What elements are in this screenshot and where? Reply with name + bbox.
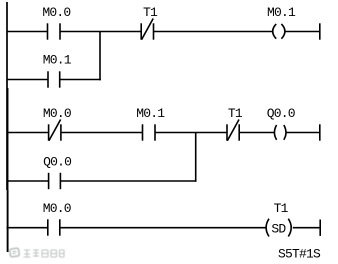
- wire rung1: left rail to contact M0.0: [7, 31, 48, 33]
- wire branch M0.1: left rail to contact: [7, 79, 49, 81]
- right rail stub network 1: [319, 23, 321, 39]
- wire rung3: coil to right rail: [293, 227, 320, 229]
- wire branch Q0.0: left rail to contact: [7, 180, 49, 182]
- contact M0.1 (NO) parallel branch network 1: [48, 71, 60, 87]
- svg-text:M0.1: M0.1: [267, 5, 296, 20]
- wire rung1: contact M0.0 to contact T1: [60, 31, 141, 33]
- junction vertical connector network 1: [99, 32, 101, 81]
- wire rung2: coil Q0.0 to right rail: [286, 132, 320, 134]
- wire rung1: contact T1 to coil M0.1: [154, 31, 273, 33]
- timer coil T1 (SD) network 3: [266, 219, 291, 237]
- right rail stub network 2: [319, 124, 321, 140]
- svg-text:M0.1: M0.1: [43, 53, 72, 68]
- svg-text:T1: T1: [228, 106, 243, 121]
- wire rung2: left rail to contact M0.0: [7, 132, 49, 134]
- wire rung3: left rail to contact M0.0: [7, 227, 49, 229]
- wire rung1: coil M0.1 to right rail: [285, 31, 320, 33]
- svg-text:SD: SD: [271, 221, 286, 236]
- wire branch M0.1: contact to junction: [60, 79, 101, 81]
- contact T1 (NC) network 1: [141, 19, 153, 40]
- left power rail: [6, 2, 9, 252]
- wire branch Q0.0: contact to junction: [60, 180, 196, 182]
- svg-text:Q0.0: Q0.0: [267, 106, 295, 121]
- svg-text:M0.0: M0.0: [43, 106, 71, 121]
- contact M0.0 (NO) network 1: [48, 23, 61, 39]
- svg-text:T1: T1: [274, 201, 289, 216]
- svg-text:M0.1: M0.1: [136, 106, 165, 121]
- wire rung3: contact M0.0 to timer coil T1: [60, 227, 267, 229]
- contact T1 (NC) network 2: [227, 120, 239, 141]
- svg-text:S5T#1S: S5T#1S: [278, 247, 321, 262]
- contact M0.0 (NC) network 2: [49, 120, 61, 141]
- wire rung2: contact M0.0 to contact M0.1: [61, 132, 143, 134]
- contact M0.1 (NO) network 2: [143, 124, 156, 140]
- coil Q0.0 network 2: [274, 125, 286, 140]
- svg-text:T1: T1: [143, 5, 158, 20]
- coil M0.1 network 1: [273, 24, 285, 39]
- svg-text:M0.0: M0.0: [42, 5, 70, 20]
- contact Q0.0 (NO) parallel branch network 2: [49, 173, 61, 189]
- junction vertical connector network 2: [195, 133, 197, 182]
- svg-text:M0.0: M0.0: [43, 201, 71, 216]
- svg-text:Q0.0: Q0.0: [43, 155, 71, 170]
- wire rung2: contact M0.1 to contact T1: [155, 132, 227, 134]
- right rail stub network 3: [319, 220, 321, 236]
- wire rung2: contact T1 to coil Q0.0: [239, 132, 274, 134]
- contact M0.0 (NO) network 3: [48, 219, 60, 235]
